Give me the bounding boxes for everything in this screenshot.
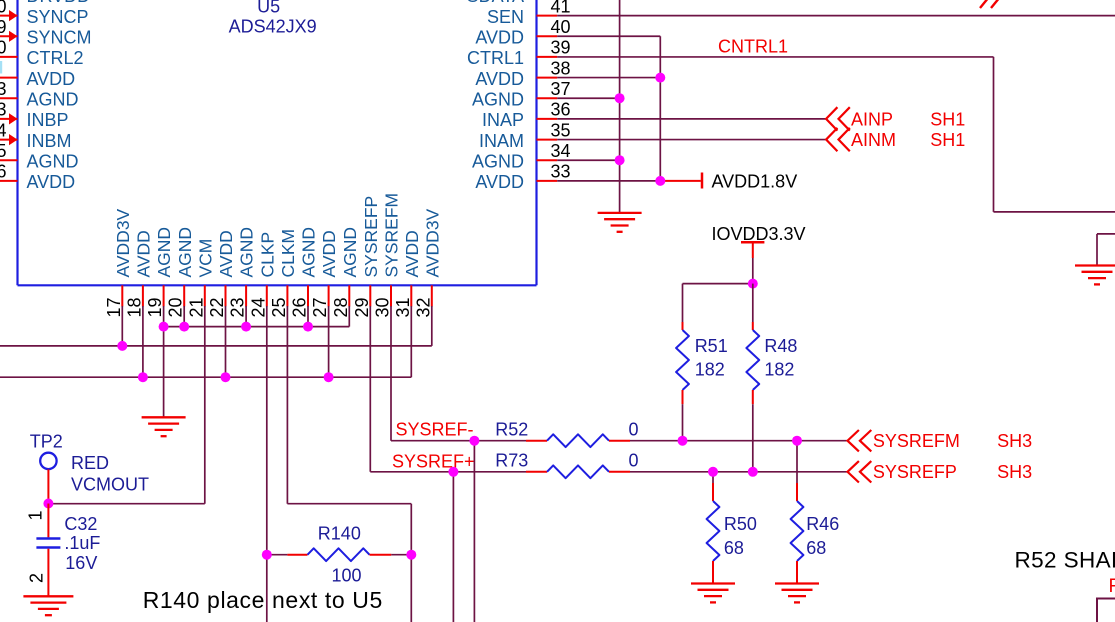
wire SYSREF+ horizontal left part (370, 471, 526, 473)
wire CLKM vertical down right of R140 (410, 504, 412, 622)
resistor R51 top wire (682, 284, 684, 322)
resistor R50 top lead (712, 483, 714, 501)
svg-text:17: 17 (104, 297, 124, 317)
svg-text:2: 2 (26, 573, 46, 583)
svg-text:AVDD3V: AVDD3V (113, 208, 133, 277)
svg-text:R52 SHARED: R52 SHARED (1015, 548, 1115, 573)
wire pin31 AVDD drop (410, 306, 412, 377)
svg-text:SH3: SH3 (997, 462, 1032, 482)
pin 36 INAP (right side) (482, 100, 571, 131)
svg-text:AVDD: AVDD (475, 69, 524, 89)
svg-text:19: 19 (145, 297, 165, 317)
pin 17 AVDD3V (bottom) (104, 208, 133, 317)
svg-text:CTRL1: CTRL1 (467, 48, 524, 68)
wire CNTRL1 bottom run to right edge (994, 211, 1115, 213)
node junction R51 to SYSREF- (678, 436, 688, 446)
resistor R51 bottom wire (682, 404, 684, 441)
svg-text:SDATA: SDATA (467, 0, 524, 6)
pin AVDD (left side, row 4) (0, 69, 75, 89)
svg-text:AVDD: AVDD (475, 172, 524, 192)
resistor R46 body (791, 501, 804, 561)
svg-text:SH1: SH1 (930, 130, 965, 150)
svg-text:31: 31 (393, 297, 413, 317)
pin 22 AVDD (bottom) (207, 230, 236, 317)
resistor R48 bottom wire (752, 404, 754, 472)
pin 24 CLKP (bottom) (248, 232, 277, 318)
svg-text:AVDD: AVDD (134, 230, 154, 277)
svg-text:29: 29 (352, 297, 372, 317)
pin SYNCM (left side, row 2) (0, 17, 92, 48)
svg-text:SEN: SEN (487, 7, 524, 27)
pin 32 AVDD3V (bottom) (413, 208, 442, 317)
node junction AVDD bus pin18 (138, 372, 148, 382)
svg-text:U5: U5 (257, 0, 280, 16)
svg-text:INAP: INAP (482, 110, 524, 130)
pin 29 SYSREFP (bottom) (352, 196, 381, 318)
svg-text:40: 40 (551, 17, 571, 37)
svg-text:INBP: INBP (27, 110, 69, 130)
wire INAM net (557, 139, 826, 141)
pin 28 AGND (bottom) (331, 227, 360, 318)
wire SYSREFM vertical from pin30 (390, 306, 392, 441)
wire AVDD bus (0, 376, 411, 378)
resistor R46 bottom lead (796, 561, 798, 584)
pin 26 AGND (bottom) (290, 227, 319, 318)
resistor R140 body (308, 548, 370, 561)
highlight mark near CTRL2 pin (0, 61, 2, 74)
svg-text:18: 18 (124, 297, 144, 317)
svg-text:SH3: SH3 (997, 431, 1032, 451)
svg-text:25: 25 (269, 297, 289, 317)
capacitor C32 top lead (47, 504, 49, 538)
svg-text:20: 20 (166, 297, 186, 317)
resistor R46 top wire (796, 441, 798, 483)
node junction IOVDD3.3V (748, 279, 758, 289)
chevron SYSREFP off-sheet (848, 461, 872, 482)
svg-text:68: 68 (724, 538, 744, 558)
wire pin17 AVDD3V drop (121, 306, 123, 346)
svg-text:182: 182 (695, 359, 725, 379)
pin 19 AGND (bottom) (145, 227, 174, 318)
svg-text:68: 68 (806, 538, 826, 558)
node junction AVDD bus pin22 (221, 372, 231, 382)
svg-text:0: 0 (629, 451, 639, 471)
resistor R46 top lead (796, 483, 798, 501)
svg-text:AGND: AGND (27, 152, 79, 172)
pin 35 INAM (right side) (479, 120, 571, 151)
pin 21 VCM (bottom) (186, 239, 215, 318)
svg-text:39: 39 (551, 38, 571, 58)
resistor R48 top wire (752, 284, 754, 322)
chevron SDATA off-sheet (clipped at top) (980, 0, 1000, 8)
svg-text:23: 23 (228, 297, 248, 317)
svg-text:VCMOUT: VCMOUT (71, 475, 149, 495)
wire R140 left (267, 554, 288, 556)
svg-text:AINP: AINP (851, 109, 893, 129)
svg-text:AVDD1.8V: AVDD1.8V (712, 171, 798, 191)
ground below R46 (775, 584, 819, 603)
resistor R51 body (676, 330, 689, 390)
svg-text:32: 32 (413, 297, 433, 317)
svg-text:AVDD: AVDD (475, 28, 524, 48)
resistor R140 left lead (287, 554, 307, 556)
wire CNTRL1 net horizontal (557, 56, 993, 58)
node junction SYSREF+ branch (448, 467, 458, 477)
svg-text:AVDD: AVDD (27, 172, 76, 192)
wire TP2 lead down (47, 469, 49, 503)
pin CTRL2 (left side, row 3) (0, 38, 84, 68)
resistor R50 top wire (712, 472, 714, 483)
wire pin28 AGND drop (348, 306, 350, 327)
wire pin19 AGND down to ground (163, 327, 165, 418)
wire SYSREFP vertical from pin29 (369, 306, 371, 472)
svg-text:6: 6 (0, 162, 7, 182)
svg-text:DRVDD: DRVDD (27, 0, 91, 6)
node junction TP2 / C32 / VCM (43, 499, 53, 509)
wire SYSREF+ branch vertical (452, 472, 454, 622)
svg-text:3: 3 (0, 79, 7, 99)
svg-text:SH1: SH1 (930, 109, 965, 129)
pin 42 SDATA (right side) (467, 0, 558, 6)
chevron AINP off-sheet (826, 107, 850, 130)
pin 27 AVDD (bottom) (310, 230, 339, 317)
svg-text:26: 26 (290, 297, 310, 317)
node junction R48 to SYSREF+ (748, 467, 758, 477)
wire pin20 AGND drop (183, 306, 185, 327)
pin 34 AGND (right side) (472, 141, 571, 172)
svg-text:INAM: INAM (479, 131, 524, 151)
svg-text:R: R (1109, 576, 1115, 597)
capacitor C32 plates (36, 539, 60, 548)
chevron AINM off-sheet (826, 128, 850, 151)
pin 39 CTRL1 (right side) (467, 38, 571, 68)
svg-text:AGND: AGND (340, 227, 360, 278)
pin AGND (left side, row 8) (0, 141, 79, 172)
svg-text:IOVDD3.3V: IOVDD3.3V (712, 224, 806, 244)
pin INBP (left side, row 6) (0, 100, 69, 131)
node junction AGND bus pin23 (241, 322, 251, 332)
svg-text:TP2: TP2 (30, 432, 63, 452)
wire pin40 AVDD to AVDD vertical (557, 35, 660, 37)
resistor R52 right lead (609, 440, 630, 442)
power IOVDD3.3V bar (741, 241, 764, 244)
capacitor C32 bottom lead (47, 549, 49, 597)
wire pin27 AVDD drop (328, 306, 330, 377)
resistor R50 body (707, 501, 720, 561)
node junction pin38 AVDD (655, 73, 665, 83)
wire SYSREF- branch vertical (473, 441, 475, 622)
wire CLKP vertical from pin24 (266, 306, 268, 622)
svg-text:AGND: AGND (154, 227, 174, 278)
node junction AVDD3V bus pin17 (117, 341, 127, 351)
svg-text:38: 38 (551, 58, 571, 78)
node junction AVDD bus pin27 (324, 372, 334, 382)
svg-text:VCM: VCM (195, 239, 215, 278)
svg-text:5: 5 (0, 141, 7, 161)
svg-text:AVDD3V: AVDD3V (422, 208, 442, 277)
svg-text:33: 33 (551, 162, 571, 182)
svg-text:C32: C32 (64, 514, 97, 534)
wire to right-edge ground (1097, 233, 1115, 235)
wire CLKM vertical from pin25 (286, 306, 288, 504)
node junction R50 to SYSREF+ (708, 467, 718, 477)
wire pin38 AVDD (557, 77, 660, 79)
wire INAP net (557, 118, 826, 120)
pin AVDD (left side, row 9) (0, 162, 75, 193)
svg-text:SYSREF+: SYSREF+ (392, 451, 475, 471)
node junction R140 left (262, 550, 272, 560)
resistor R48 bottom lead (752, 390, 754, 404)
svg-text:36: 36 (551, 100, 571, 120)
wire pin18 AVDD drop (142, 306, 144, 377)
wire SYSREF+ horizontal right part (630, 471, 848, 473)
svg-text:0: 0 (629, 420, 639, 440)
power IOVDD3.3V stem (752, 242, 754, 258)
svg-text:SYSREFM: SYSREFM (382, 193, 402, 278)
svg-text:0: 0 (0, 38, 7, 58)
svg-text:CLKM: CLKM (278, 229, 298, 278)
svg-text:AINM: AINM (851, 130, 896, 150)
pin SYNCP (left side, row 1) (0, 0, 89, 27)
ground below pin19 (142, 417, 186, 436)
wire pin32 AVDD3V drop (431, 306, 433, 346)
pin 41 SEN (right side) (487, 0, 571, 27)
svg-text:R48: R48 (764, 336, 797, 356)
svg-text:28: 28 (331, 297, 351, 317)
wire pin33 AVDD (557, 180, 660, 182)
resistor R73 left lead (526, 471, 547, 473)
wire pin37 AGND (557, 97, 619, 99)
pin DRVDD (left side, row 0) (0, 0, 90, 6)
svg-text:27: 27 (310, 297, 330, 317)
resistor R48 body (746, 330, 759, 390)
svg-text:21: 21 (186, 297, 206, 317)
test point TP2 circle (40, 453, 56, 469)
pin 37 AGND (right side) (472, 79, 571, 110)
svg-text:AGND: AGND (175, 227, 195, 278)
svg-text:100: 100 (332, 566, 362, 586)
svg-text:RED: RED (71, 453, 109, 473)
svg-text:R51: R51 (695, 336, 728, 356)
resistor R51 bottom lead (682, 390, 684, 404)
svg-text:INBM: INBM (27, 131, 72, 151)
svg-text:AGND: AGND (27, 90, 79, 110)
svg-text:41: 41 (551, 0, 571, 16)
svg-text:AVDD: AVDD (216, 230, 236, 277)
wire VCM horizontal to TP2 (48, 503, 204, 505)
wire SEN net (557, 15, 1115, 17)
svg-text:3: 3 (0, 100, 7, 120)
wire pin23 AGND drop (245, 306, 247, 327)
svg-text:AVDD: AVDD (402, 230, 422, 277)
wire AVDD3V bus (0, 345, 432, 347)
svg-text:37: 37 (551, 79, 571, 99)
node junction AGND bus pin19 (159, 322, 169, 332)
svg-text:1: 1 (26, 510, 46, 520)
svg-text:182: 182 (764, 359, 794, 379)
resistor R50 bottom lead (712, 561, 714, 584)
node junction pin33 AVDD (655, 176, 665, 186)
svg-text:SYSREF-: SYSREF- (396, 420, 474, 440)
svg-text:34: 34 (551, 141, 571, 161)
pin 20 AGND (bottom) (166, 227, 195, 318)
pin 33 AVDD (right side) (475, 162, 570, 193)
svg-text:9: 9 (0, 17, 7, 37)
node junction AGND bus pin26 (303, 322, 313, 332)
ground at right edge (1075, 266, 1115, 285)
pin 31 AVDD (bottom) (393, 230, 422, 317)
svg-text:24: 24 (248, 297, 268, 317)
wire IOVDD to R51 top (683, 283, 753, 285)
resistor R73 right lead (609, 471, 630, 473)
svg-text:CLKP: CLKP (257, 232, 277, 278)
svg-text:16V: 16V (65, 553, 97, 573)
pin 18 AVDD (bottom) (124, 230, 153, 317)
wire pin26 AGND drop (307, 306, 309, 327)
wire CLKM jog horizontal (287, 503, 411, 505)
power AVDD1.8V bar (701, 173, 704, 189)
svg-text:AVDD: AVDD (27, 69, 76, 89)
svg-text:R140: R140 (318, 524, 361, 544)
wire AGND bus below IC (164, 326, 350, 328)
svg-text:R52: R52 (495, 420, 528, 440)
chevron SYSREFM off-sheet (848, 430, 872, 451)
wire VCM vertical from pin21 (204, 306, 206, 504)
wire SYSREF- horizontal right part (630, 440, 848, 442)
resistor R48 top lead (752, 322, 754, 330)
svg-text:SYNCP: SYNCP (27, 7, 89, 27)
wire IOVDD3.3V stem lower (752, 258, 754, 284)
pin 38 AVDD (right side) (475, 58, 570, 89)
node junction SYSREF- branch (469, 436, 479, 446)
svg-text:AGND: AGND (472, 90, 524, 110)
node junction R140 right (406, 550, 416, 560)
svg-text:SYSREFP: SYSREFP (361, 196, 381, 278)
wire R140 right (391, 554, 411, 556)
svg-text:R46: R46 (806, 514, 839, 534)
svg-text:CTRL2: CTRL2 (27, 48, 84, 68)
resistor R51 top lead (682, 322, 684, 330)
resistor R73 body (547, 465, 609, 478)
svg-text:ADS42JX9: ADS42JX9 (229, 17, 317, 37)
svg-text:AVDD: AVDD (319, 230, 339, 277)
pin 40 AVDD (right side) (475, 17, 570, 48)
svg-text:SYNCM: SYNCM (27, 28, 92, 48)
pin 25 CLKM (bottom) (269, 229, 298, 318)
pin 30 SYSREFM (bottom) (373, 193, 402, 318)
resistor R140 right lead (370, 554, 392, 556)
IC U5 ADS42JX9 body outline (18, 0, 537, 285)
pin AGND (left side, row 5) (0, 79, 79, 110)
node junction R46 to SYSREF- (792, 436, 802, 446)
pin INBM (left side, row 7) (0, 120, 72, 151)
power AVDD1.8V pin lead (660, 180, 701, 182)
wire pin34 AGND (557, 159, 619, 161)
node junction pin37 AGND (615, 93, 625, 103)
svg-text:0: 0 (0, 0, 7, 16)
node junction pin34 AGND (615, 155, 625, 165)
svg-text:R140 place next to U5: R140 place next to U5 (143, 587, 383, 613)
svg-text:AGND: AGND (299, 227, 319, 278)
ground below R50 (691, 584, 735, 603)
svg-text:R73: R73 (495, 451, 528, 471)
pin 23 AGND (bottom) (228, 227, 257, 318)
svg-text:AGND: AGND (472, 152, 524, 172)
svg-text:CNTRL1: CNTRL1 (718, 37, 788, 57)
svg-text:R50: R50 (724, 514, 757, 534)
svg-text:AGND: AGND (237, 227, 257, 278)
wire pin19 AGND drop (163, 306, 165, 327)
svg-text:30: 30 (373, 297, 393, 317)
ground below C32 (23, 596, 73, 615)
svg-text:35: 35 (551, 120, 571, 140)
svg-text:4: 4 (0, 120, 7, 140)
wire right-edge ground stem (1096, 234, 1098, 266)
svg-text:.1uF: .1uF (64, 533, 100, 553)
svg-text:SYSREFP: SYSREFP (873, 462, 957, 482)
resistor R52 left lead (526, 440, 547, 442)
wire AVDD vertical bus (659, 36, 661, 181)
ground AGND (below pin37/34) (598, 213, 642, 232)
wire AGND vertical bus (619, 0, 621, 213)
node junction AGND bus pin20 (179, 322, 189, 332)
svg-text:22: 22 (207, 297, 227, 317)
resistor R52 body (547, 434, 609, 447)
wire pin22 AVDD drop (225, 306, 227, 377)
wire SYSREF- horizontal left part (391, 440, 526, 442)
svg-text:SYSREFM: SYSREFM (873, 431, 960, 451)
wire CNTRL1 vertical (993, 57, 995, 212)
sheet box corner bottom right (1097, 599, 1115, 622)
